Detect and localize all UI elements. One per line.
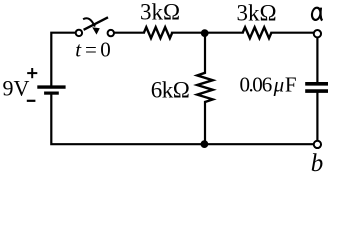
svg-text:3kΩ: 3kΩ <box>237 0 277 25</box>
svg-text:b: b <box>311 150 324 177</box>
svg-text:t=0: t=0 <box>75 38 111 62</box>
svg-text:6kΩ: 6kΩ <box>151 78 190 103</box>
svg-text:3kΩ: 3kΩ <box>140 0 180 24</box>
svg-text:9V: 9V <box>3 76 30 101</box>
svg-text:0.06μF: 0.06μF <box>240 72 297 96</box>
